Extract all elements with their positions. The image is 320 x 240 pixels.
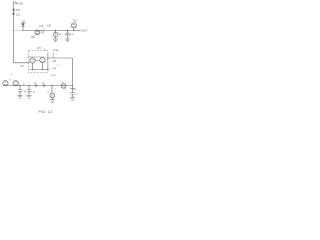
bottom rail wire	[3, 85, 73, 87]
svg-text:146: 146	[52, 60, 57, 63]
svg-text:14b: 14b	[40, 33, 44, 35]
transistor Q139 below wire	[35, 30, 40, 35]
svg-text:14: 14	[73, 89, 76, 91]
leader tick	[57, 64, 59, 66]
series element S2	[43, 84, 45, 87]
svg-text:Tr: Tr	[11, 73, 13, 76]
transistor Tr4 below rail	[50, 93, 55, 98]
wire rail to box	[14, 62, 30, 64]
mirror connect wire	[35, 60, 40, 62]
node dot	[37, 30, 38, 31]
M1 drain stub	[32, 63, 34, 69]
ground under C143	[67, 35, 69, 39]
transistor Q142 above wire	[71, 23, 76, 28]
svg-text:133: 133	[22, 91, 26, 93]
current source Q141 to ground	[55, 31, 57, 33]
svg-text:Tr: Tr	[47, 91, 49, 94]
diode D135	[21, 24, 24, 27]
branch node A	[19, 85, 20, 86]
net riser wire down	[72, 58, 74, 93]
svg-text:170: 170	[37, 47, 42, 50]
input terminal top	[14, 2, 17, 6]
svg-text:172: 172	[20, 65, 25, 68]
svg-text:148: 148	[52, 68, 56, 70]
transistor T2	[13, 81, 18, 86]
svg-text:135: 135	[21, 20, 26, 23]
svg-text:14: 14	[34, 82, 37, 84]
svg-text:139: 139	[31, 37, 36, 39]
gate tick	[23, 83, 25, 85]
capacitor C133	[18, 90, 22, 92]
battery B1	[70, 92, 75, 94]
branch node B	[28, 85, 29, 86]
svg-text:141: 141	[58, 34, 62, 36]
series element S1	[35, 84, 37, 87]
svg-text:Tr: Tr	[61, 80, 63, 83]
resistor R132 tick	[12, 9, 15, 12]
pmos M2	[40, 57, 45, 62]
svg-text:14: 14	[42, 82, 45, 84]
output net wire to right	[48, 57, 73, 59]
left rail wire	[13, 7, 15, 63]
ground under battery	[70, 98, 75, 101]
drain riser wire	[47, 53, 49, 70]
branch node C	[51, 85, 52, 86]
svg-text:134: 134	[31, 91, 35, 93]
svg-text:132: 132	[16, 9, 21, 12]
top wire y30	[14, 30, 23, 32]
ground under Tr4	[51, 98, 53, 100]
svg-text:Tr: Tr	[9, 79, 11, 82]
svg-text:171a: 171a	[53, 49, 59, 52]
box bottom net wire	[30, 69, 48, 71]
svg-text:V100: V100	[17, 3, 23, 6]
svg-text:131: 131	[16, 14, 21, 17]
dashed box 170	[29, 51, 49, 73]
terminal dot	[16, 3, 17, 4]
M2 drain stub	[42, 63, 44, 70]
svg-text:FIG. 12: FIG. 12	[39, 110, 53, 114]
ground under C133	[17, 95, 22, 98]
svg-text:142: 142	[73, 19, 78, 22]
capacitor C134	[27, 90, 31, 92]
transistor Tr5 on rail	[61, 83, 66, 88]
gate tie wire	[27, 56, 45, 58]
svg-text:+: +	[65, 87, 67, 90]
pmos M1	[30, 58, 35, 63]
capacitor C143	[67, 31, 69, 33]
diode D131 mark	[12, 13, 14, 15]
ground under C134	[26, 95, 31, 98]
junction rail / riser	[72, 85, 73, 86]
svg-text:VOUT: VOUT	[80, 29, 88, 33]
svg-text:136: 136	[39, 25, 44, 28]
ground under Q141	[55, 37, 57, 39]
svg-text:12: 12	[75, 94, 78, 96]
svg-text:138: 138	[47, 25, 52, 28]
svg-text:143: 143	[70, 34, 74, 36]
svg-text:147b: 147b	[51, 75, 57, 77]
transistor T1	[3, 81, 8, 86]
output arrowhead	[78, 30, 80, 31]
